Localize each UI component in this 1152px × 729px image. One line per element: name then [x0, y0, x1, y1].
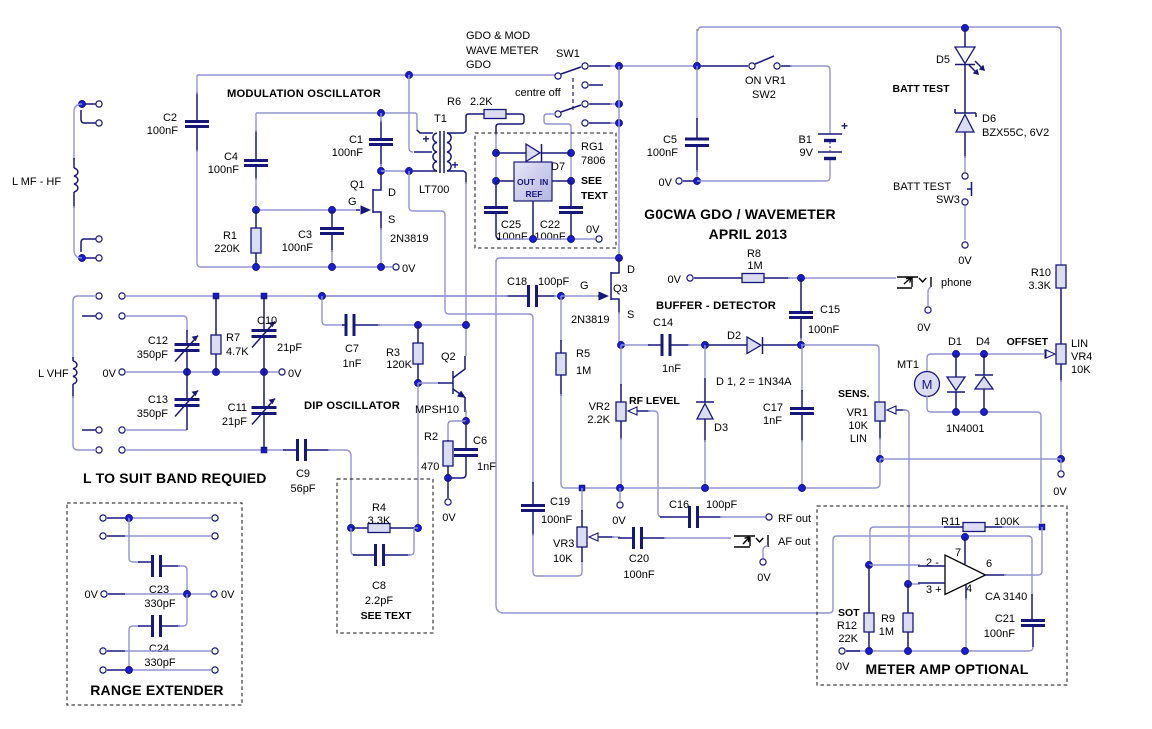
label APRIL 2013: [709, 226, 788, 242]
wire row5 to C9: [126, 449, 285, 451]
resistor VR2: [616, 402, 626, 421]
svg-text:C8: C8: [372, 580, 386, 592]
junction L MF-HF bottom: [79, 255, 86, 262]
junction C1 top: [378, 110, 385, 117]
battery B1 9V: [818, 119, 848, 159]
svg-text:350pF: 350pF: [137, 408, 168, 420]
wire 3+ input: [909, 583, 920, 585]
wire: [255, 113, 257, 132]
wire VR1 wiper lead: [896, 409, 905, 411]
wire: [107, 535, 125, 537]
junction C23/C24 0V: [184, 591, 191, 598]
junction R4 right: [415, 525, 422, 532]
wire C1-T1 link: [381, 170, 409, 172]
wire C6 bottom lead: [448, 456, 466, 478]
capacitor C20: [634, 527, 642, 549]
label SW3: [936, 194, 960, 206]
label MT1: [897, 359, 919, 371]
label R10: [1031, 267, 1051, 279]
wire C15 top lead: [800, 278, 802, 312]
dashed box RANGE EXTENDER: [67, 503, 242, 705]
label VR4 value: [1071, 364, 1091, 376]
junction C7 drop: [319, 293, 326, 300]
label pin 4: [966, 583, 972, 595]
svg-text:DIP OSCILLATOR: DIP OSCILLATOR: [304, 400, 400, 412]
terminal 0V: [687, 275, 693, 281]
wire C7 to R3/Q2: [378, 324, 466, 326]
capacitor C21: [1021, 621, 1045, 626]
wire C2 top lead: [196, 92, 198, 121]
label C6 value: [477, 461, 496, 473]
diode D7: [526, 144, 542, 162]
wire R7 top lead: [215, 296, 217, 335]
label C20 value: [623, 569, 654, 581]
svg-text:56pF: 56pF: [290, 483, 315, 495]
wire to Q3 gate: [561, 295, 598, 297]
svg-text:1nF: 1nF: [763, 415, 782, 427]
transformer T1 LT700: [413, 131, 464, 173]
wire C3 bottom lead: [331, 234, 333, 252]
wire to B1 plus: [790, 66, 830, 134]
label BUFFER - DETECTOR: [656, 300, 776, 312]
svg-text:0V: 0V: [668, 274, 682, 286]
wire D3 cathode lead: [704, 378, 706, 402]
label pin 6: [986, 558, 992, 570]
wire D3 anode lead: [704, 419, 706, 442]
wire D7 anode lead: [496, 152, 526, 154]
wire C19 top lead: [532, 482, 534, 505]
wire D2 cathode lead: [763, 344, 801, 346]
svg-text:3 +: 3 +: [926, 584, 942, 596]
terminal 0V: [393, 264, 399, 270]
terminal ext row E r: [212, 667, 218, 673]
svg-text:D 1, 2 = 1N34A: D 1, 2 = 1N34A: [716, 376, 792, 388]
svg-text:C20: C20: [629, 553, 649, 565]
svg-text:IN: IN: [540, 177, 549, 187]
wire R5 bottom lead: [560, 375, 562, 396]
label R1: [223, 230, 237, 242]
svg-text:21pF: 21pF: [222, 416, 247, 428]
wire y258 supply rail: [496, 258, 619, 262]
wire VR3 top: [581, 488, 583, 512]
terminal ext row E l: [100, 667, 106, 673]
capacitor C15: [789, 313, 813, 318]
svg-text:C6: C6: [473, 435, 487, 447]
svg-text:D3: D3: [714, 422, 728, 434]
wire D3 to 0V rail: [704, 440, 706, 488]
svg-text:D2: D2: [727, 330, 741, 342]
label C19: [550, 496, 570, 508]
label D2: [727, 330, 741, 342]
terminal RF out: [766, 514, 772, 520]
label C22: [540, 219, 560, 231]
svg-text:C24: C24: [149, 643, 169, 655]
junction Q1/0V: [378, 264, 385, 271]
svg-text:MPSH10: MPSH10: [415, 404, 459, 416]
wire C7 left lead: [342, 324, 345, 326]
connector phone jack: [897, 277, 931, 288]
transistor Q3 2N3819: [598, 258, 619, 314]
wire gate rail to C18: [323, 295, 508, 297]
svg-text:10K: 10K: [848, 420, 868, 432]
label S: [627, 309, 634, 321]
junction C24 bottom: [126, 667, 133, 674]
wire: [554, 295, 561, 297]
label C23: [149, 584, 169, 596]
wire VR2 top: [620, 345, 622, 386]
label VR1: [847, 407, 868, 419]
label C4: [224, 151, 238, 163]
wire IN lead: [552, 180, 571, 182]
svg-text:SEE TEXT: SEE TEXT: [361, 610, 412, 622]
svg-text:0V: 0V: [1053, 486, 1067, 498]
wire R4 right lead: [390, 527, 418, 529]
dashed box RG1: [475, 133, 616, 248]
junction VR1/0V: [877, 456, 884, 463]
label C24 value: [144, 657, 175, 669]
label OFFSET: [1007, 336, 1049, 348]
svg-text:C4: C4: [224, 151, 238, 163]
svg-text:100pF: 100pF: [706, 499, 737, 511]
junction R4 left: [348, 525, 355, 532]
terminal AF 0V: [760, 559, 766, 565]
wire VR1 bottom lead: [879, 421, 881, 440]
wire C10 bottom lead: [263, 337, 265, 372]
wire VR1 wiper to op-amp +: [903, 410, 909, 580]
junction REF/0V: [530, 236, 537, 243]
label C10 value: [277, 342, 302, 354]
inductor L MF - HF: [74, 104, 82, 258]
svg-text:MT1: MT1: [897, 359, 919, 371]
label ON VR1: [745, 75, 786, 87]
junction Q2 collector: [463, 322, 470, 329]
label RF LEVEL: [629, 395, 680, 407]
wire VR4 bottom lead: [1060, 364, 1062, 382]
terminal 0V row: [119, 369, 125, 375]
svg-text:C18: C18: [507, 276, 527, 288]
wire R11 right lead: [985, 526, 1004, 528]
label D7: [551, 161, 565, 173]
terminal row5 a: [96, 447, 102, 453]
junction C18/R5/gate: [558, 293, 565, 300]
wire AF sleeve stub: [763, 546, 768, 558]
wire R9 top lead: [907, 584, 909, 613]
svg-text:7: 7: [955, 547, 961, 559]
label 0V: [103, 368, 117, 380]
wire row4 stub: [82, 429, 96, 431]
wire SW1 contact3: [589, 103, 612, 105]
svg-text:C10: C10: [257, 315, 277, 327]
wire C21 top lead: [1031, 594, 1033, 620]
svg-text:120K: 120K: [386, 359, 412, 371]
label C1 value: [332, 147, 363, 159]
label Q1 value 2N3819: [390, 233, 429, 245]
label RANGE EXTENDER: [90, 682, 223, 698]
label R9: [881, 613, 895, 625]
label C14 value: [662, 363, 681, 375]
variable capacitor C10: [252, 322, 277, 348]
wire reg left rail: [495, 153, 497, 181]
wire: [331, 250, 333, 267]
terminal ext row B l: [100, 533, 106, 539]
svg-text:D7: D7: [551, 161, 565, 173]
wire C13 bottom lead: [186, 406, 188, 430]
label 0V: [836, 661, 850, 673]
wire C13 top lead: [186, 372, 188, 399]
svg-text:100nF: 100nF: [332, 147, 363, 159]
label T1 value LT700: [419, 184, 449, 196]
svg-text:0V: 0V: [402, 263, 416, 275]
wire R3 bottom lead: [417, 364, 419, 383]
capacitor C6: [454, 450, 478, 456]
resistor R10: [1056, 265, 1066, 288]
wire D4 anode lead: [983, 389, 985, 412]
svg-text:R5: R5: [576, 348, 590, 360]
svg-text:R12: R12: [837, 620, 857, 632]
switch SW1 pole A: [561, 67, 581, 74]
label C2: [163, 112, 177, 124]
capacitor C8: [376, 544, 384, 566]
capacitor C17: [790, 409, 814, 414]
wire row2 stub: [82, 315, 96, 317]
svg-text:10K: 10K: [553, 553, 573, 565]
capacitor C4: [244, 161, 268, 166]
diode D4: [975, 375, 993, 389]
wire C12 bottom lead: [186, 351, 188, 372]
terminal row4 b: [119, 427, 125, 433]
wire battery bottom loop: [697, 158, 830, 181]
wire VR3 bottom lead: [581, 547, 583, 562]
wire VR3 top lead: [581, 510, 583, 527]
wire VR1 to detector rail: [875, 459, 880, 488]
svg-text:L MF - HF: L MF - HF: [12, 176, 61, 188]
label DIP OSCILLATOR: [304, 400, 400, 412]
wire: [107, 669, 125, 671]
svg-text:G: G: [348, 196, 357, 208]
label C13: [148, 394, 168, 406]
svg-text:R10: R10: [1031, 267, 1051, 279]
svg-text:10K: 10K: [1071, 364, 1091, 376]
wire D5 to D6: [964, 65, 966, 113]
wire to SW3: [964, 156, 966, 172]
wire T1 sec top lead: [464, 116, 466, 133]
svg-text:L TO SUIT BAND REQUIED: L TO SUIT BAND REQUIED: [83, 470, 267, 486]
label C17 value: [763, 415, 782, 427]
label C12 value: [137, 349, 168, 361]
wire: [255, 178, 257, 206]
svg-text:330pF: 330pF: [144, 657, 175, 669]
junction C5/0V: [694, 178, 701, 185]
wire R5 to detector 0V rail: [561, 394, 565, 488]
svg-text:D: D: [627, 264, 635, 276]
capacitor C9: [298, 439, 306, 461]
svg-text:2.2K: 2.2K: [587, 414, 610, 426]
label C8: [372, 580, 386, 592]
label D4: [976, 336, 990, 348]
terminal L MF-HF pin 2: [96, 120, 102, 126]
switch SW1 gang link: [572, 78, 574, 112]
capacitor C23: [153, 555, 161, 577]
label C17: [763, 402, 783, 414]
label R3 value: [386, 359, 412, 371]
wire pin4 stub: [82, 257, 96, 259]
label S: [388, 214, 395, 226]
resistor R12: [864, 613, 874, 632]
label C9 value: [290, 483, 315, 495]
wire C24 right to 0V: [178, 594, 187, 626]
label C1: [349, 134, 363, 146]
wire R2 top lead: [447, 440, 449, 441]
wire 2- lead: [918, 565, 945, 567]
label C12: [148, 335, 168, 347]
svg-text:SENS.: SENS.: [838, 388, 870, 400]
label SEE TEXT: [361, 610, 412, 622]
wire R7 bottom lead: [215, 354, 217, 372]
wire C18 left lead: [506, 295, 527, 297]
junction C4/R1/gate: [253, 207, 260, 214]
label RG1 value 7806: [581, 155, 605, 167]
svg-text:7806: 7806: [581, 155, 605, 167]
label C3 value: [282, 242, 313, 254]
svg-text:+: +: [422, 132, 429, 146]
svg-text:D: D: [388, 187, 396, 199]
svg-text:AF out: AF out: [778, 536, 810, 548]
label D6: [982, 113, 996, 125]
wire 3+ lead: [918, 582, 945, 584]
wire Q1 gate rail: [256, 209, 356, 211]
wire: [610, 103, 619, 105]
terminal row2 a: [96, 313, 102, 319]
wire pin 4 to 0V: [965, 598, 967, 651]
svg-text:100nF: 100nF: [808, 324, 839, 336]
terminal ext row D l: [100, 648, 106, 654]
capacitor C16: [690, 506, 698, 528]
svg-text:M: M: [922, 377, 933, 392]
label 0V: [586, 224, 600, 236]
label C4 value: [208, 164, 239, 176]
terminal 0V: [839, 648, 845, 654]
label D6 value BZX55C 6V2: [982, 127, 1049, 139]
svg-text:100nF: 100nF: [534, 231, 565, 243]
svg-text:BATT TEST: BATT TEST: [893, 83, 951, 95]
svg-text:GDO: GDO: [466, 59, 492, 71]
wire C23 right to 0V: [178, 566, 187, 594]
wire R5 top lead: [560, 340, 562, 353]
wire C8 right up: [408, 528, 418, 555]
label U1 value CA 3140: [985, 591, 1027, 603]
svg-text:3.3K: 3.3K: [368, 515, 391, 527]
svg-text:LIN: LIN: [1071, 338, 1088, 350]
wire: [800, 338, 802, 345]
junction R11/output: [1039, 524, 1045, 530]
label L MF - HF: [12, 176, 61, 188]
svg-text:100nF: 100nF: [541, 514, 572, 526]
label 0V: [668, 274, 682, 286]
wire VR2 to 0V rail: [620, 438, 622, 488]
wire 0V stub: [619, 488, 621, 501]
label C9: [296, 468, 310, 480]
label L VHF: [38, 368, 69, 380]
wire ext row A: [125, 517, 211, 519]
svg-text:WAVE METER: WAVE METER: [466, 45, 539, 57]
wire C16 to RF out: [720, 516, 765, 518]
wire R11 left: [870, 527, 946, 531]
wire: [107, 650, 125, 652]
svg-text:C5: C5: [663, 134, 677, 146]
svg-text:B1: B1: [799, 134, 812, 146]
wire: [610, 65, 694, 67]
resistor VR3: [577, 527, 587, 547]
junction C5/SW2: [694, 63, 701, 70]
junction bus/contact1: [616, 63, 623, 70]
junction D4 top: [981, 351, 988, 358]
wire C7 right lead: [355, 324, 380, 326]
svg-text:C16: C16: [669, 499, 689, 511]
wire supply bus x619: [618, 66, 620, 258]
junction bus/contact4: [616, 120, 623, 127]
wire R12 top lead: [868, 565, 870, 613]
label Q2 value MPSH10: [415, 404, 459, 416]
svg-text:C3: C3: [298, 229, 312, 241]
wire C17 to 0V rail: [801, 440, 803, 488]
svg-text:1M: 1M: [576, 365, 591, 377]
wire 0V stub: [447, 478, 449, 498]
wire pin 7 lead: [964, 537, 966, 564]
wire R11 to inverting input: [869, 529, 871, 565]
resistor R3: [413, 343, 423, 364]
label G: [580, 280, 589, 292]
svg-text:R4: R4: [372, 502, 386, 514]
svg-text:2N3819: 2N3819: [571, 314, 610, 326]
label C20: [629, 553, 649, 565]
dashed box METER AMP OPTIONAL: [817, 506, 1067, 685]
terminal row4 a: [96, 427, 102, 433]
terminal SW3 a: [962, 173, 968, 179]
junction C23 top: [126, 515, 133, 522]
junction R9/3+: [905, 581, 912, 588]
wire C1 top lead: [380, 120, 382, 139]
junction R7 bottom: [213, 369, 220, 376]
junction bus/Q3 drain: [616, 255, 623, 262]
label LIN: [850, 433, 867, 445]
junction D2/C15/C17/SENS: [798, 342, 805, 349]
wire D6 lead: [964, 132, 966, 158]
wire C20 left lead: [618, 537, 632, 539]
wire R11 left lead: [944, 526, 963, 528]
wire reg right rail: [570, 153, 572, 181]
label R8 value: [747, 260, 762, 272]
junction VR3/0V: [579, 485, 585, 491]
wire emitter node: [465, 410, 467, 421]
svg-text:100nF: 100nF: [647, 147, 678, 159]
label B1: [799, 134, 812, 146]
wire C23 left feed: [129, 518, 140, 562]
label 0V: [221, 589, 235, 601]
junction Q2 emitter/R2/C6: [463, 418, 470, 425]
wire ext row D: [125, 650, 211, 652]
label C11 value: [222, 416, 247, 428]
wire C11 bottom lead: [263, 414, 265, 450]
wire VR2 wiper lead: [637, 410, 650, 412]
wire C5 bottom lead: [696, 146, 698, 172]
wire: [610, 122, 619, 124]
junction bus/contact3: [616, 101, 623, 108]
svg-text:C2: C2: [163, 112, 177, 124]
svg-text:Q2: Q2: [441, 351, 456, 363]
terminal 0V right: [279, 369, 285, 375]
label D: [388, 187, 396, 199]
label R5 value: [576, 365, 591, 377]
